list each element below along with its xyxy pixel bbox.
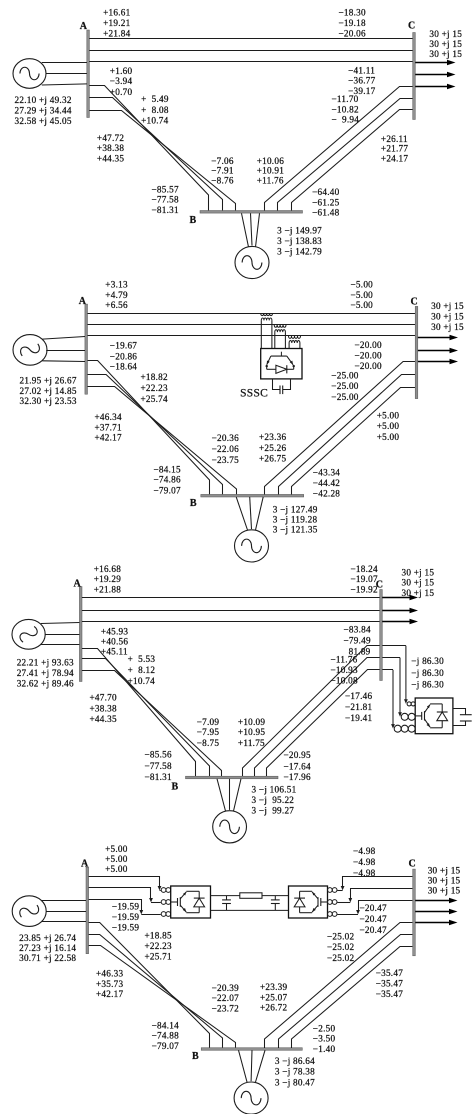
svg-text:−j 86.30: −j 86.30 (411, 656, 444, 666)
svg-text:−17.64: −17.64 (284, 761, 312, 771)
svg-text:+5.00: +5.00 (377, 432, 400, 442)
svg-text:−79.07: −79.07 (152, 1041, 180, 1051)
svg-text:−22.06: −22.06 (212, 444, 240, 454)
svg-text:+45.11: +45.11 (101, 646, 128, 656)
svg-text:−20.39: −20.39 (212, 983, 240, 993)
svg-text:+35.73: +35.73 (96, 979, 124, 989)
svg-text:−41.11: −41.11 (348, 66, 375, 76)
svg-text:−83.84: −83.84 (344, 625, 372, 635)
svg-text:A: A (74, 579, 82, 590)
svg-text:+ 5.49: + 5.49 (141, 94, 169, 104)
svg-text:3 −j 142.79: 3 −j 142.79 (277, 247, 322, 257)
svg-text:30 +j 15: 30 +j 15 (429, 49, 462, 59)
svg-text:C: C (376, 580, 383, 591)
svg-text:+ 8.08: + 8.08 (141, 105, 169, 115)
svg-text:+10.95: +10.95 (238, 727, 266, 737)
svg-text:−20.47: −20.47 (360, 903, 388, 913)
svg-text:−43.34: −43.34 (313, 467, 341, 477)
svg-text:−79.49: −79.49 (344, 636, 372, 646)
svg-text:−81.31: −81.31 (145, 772, 173, 782)
svg-text:−4.98: −4.98 (353, 868, 376, 878)
svg-text:−1.40: −1.40 (313, 1044, 336, 1054)
svg-text:−44.42: −44.42 (313, 478, 341, 488)
svg-text:+21.84: +21.84 (103, 28, 131, 38)
svg-text:SSSC: SSSC (240, 387, 268, 399)
svg-text:−25.00: −25.00 (331, 381, 359, 391)
svg-text:+42.17: +42.17 (95, 432, 123, 442)
svg-text:A: A (79, 296, 87, 307)
svg-text:23.85 +j 26.74: 23.85 +j 26.74 (19, 933, 76, 943)
svg-text:30 +j 15: 30 +j 15 (429, 39, 462, 49)
svg-text:−11.76: −11.76 (331, 655, 358, 665)
svg-text:−84.14: −84.14 (152, 1020, 180, 1030)
svg-text:−10.08: −10.08 (331, 675, 359, 685)
svg-text:+23.39: +23.39 (260, 982, 288, 992)
svg-text:−5.00: −5.00 (351, 300, 374, 310)
svg-text:+0.70: +0.70 (110, 87, 133, 97)
svg-text:−j 86.30: −j 86.30 (411, 679, 444, 689)
svg-text:27.29 +j 34.44: 27.29 +j 34.44 (15, 105, 72, 115)
svg-text:A: A (80, 21, 88, 32)
svg-text:−25.02: −25.02 (327, 932, 355, 942)
svg-text:+37.71: +37.71 (95, 422, 123, 432)
svg-text:−23.72: −23.72 (212, 1003, 240, 1013)
svg-text:−25.00: −25.00 (331, 392, 359, 402)
svg-text:30 +j 15: 30 +j 15 (428, 886, 461, 896)
svg-text:−8.75: −8.75 (197, 738, 220, 748)
svg-text:30 +j 15: 30 +j 15 (431, 312, 464, 322)
svg-text:−35.47: −35.47 (376, 989, 404, 999)
svg-text:−36.77: −36.77 (348, 76, 376, 86)
svg-text:−21.81: −21.81 (345, 702, 373, 712)
svg-text:+5.00: +5.00 (377, 410, 400, 420)
svg-text:+16.68: +16.68 (94, 564, 122, 574)
svg-text:3 −j 106.51: 3 −j 106.51 (252, 785, 297, 795)
svg-text:C: C (411, 296, 418, 307)
svg-text:−3.94: −3.94 (110, 76, 133, 86)
svg-text:−20.47: −20.47 (360, 914, 388, 924)
svg-text:3 −j 127.49: 3 −j 127.49 (273, 504, 318, 514)
svg-text:−84.15: −84.15 (154, 465, 182, 475)
svg-text:+19.29: +19.29 (94, 574, 122, 584)
svg-text:30.71 +j 22.58: 30.71 +j 22.58 (19, 953, 76, 963)
svg-text:+22.23: +22.23 (141, 383, 169, 393)
svg-text:30 +j 15: 30 +j 15 (428, 866, 461, 876)
svg-text:+22.23: +22.23 (145, 941, 173, 951)
svg-text:+24.17: +24.17 (381, 153, 409, 163)
svg-text:+ 8.12: + 8.12 (128, 665, 156, 675)
svg-text:+18.82: +18.82 (141, 372, 169, 382)
svg-text:−85.57: −85.57 (152, 184, 180, 194)
svg-text:−7.95: −7.95 (197, 727, 220, 737)
svg-text:−25.02: −25.02 (327, 953, 355, 963)
svg-text:+6.56: +6.56 (105, 300, 128, 310)
svg-text:3 −j 149.97: 3 −j 149.97 (277, 226, 322, 236)
svg-text:−19.67: −19.67 (110, 341, 138, 351)
svg-text:+44.35: +44.35 (97, 153, 125, 163)
svg-text:+4.79: +4.79 (105, 290, 128, 300)
svg-text:−74.88: −74.88 (152, 1031, 180, 1041)
svg-text:−7.09: −7.09 (197, 717, 220, 727)
svg-text:+10.74: +10.74 (141, 116, 169, 126)
svg-text:−35.47: −35.47 (376, 979, 404, 989)
svg-text:+26.75: +26.75 (259, 454, 287, 464)
svg-text:−20.06: −20.06 (339, 28, 367, 38)
svg-text:− 9.94: − 9.94 (332, 115, 360, 125)
svg-text:−74.86: −74.86 (154, 475, 182, 485)
svg-text:+23.36: +23.36 (259, 432, 287, 442)
svg-text:30 +j 15: 30 +j 15 (428, 876, 461, 886)
svg-text:−20.86: −20.86 (110, 352, 138, 362)
svg-text:+21.88: +21.88 (94, 585, 122, 595)
svg-text:+10.09: +10.09 (238, 717, 266, 727)
svg-text:+5.00: +5.00 (105, 854, 128, 864)
svg-text:−79.07: −79.07 (154, 485, 182, 495)
svg-text:C: C (408, 20, 415, 31)
svg-text:+11.76: +11.76 (257, 176, 284, 186)
svg-text:+26.72: +26.72 (260, 1003, 288, 1013)
svg-text:−22.07: −22.07 (212, 993, 240, 1003)
svg-text:−77.58: −77.58 (145, 761, 173, 771)
svg-text:+38.38: +38.38 (90, 704, 118, 714)
svg-text:27.02 +j 14.85: 27.02 +j 14.85 (20, 386, 77, 396)
svg-text:+44.35: +44.35 (90, 714, 118, 724)
svg-text:30 +j 15: 30 +j 15 (402, 568, 435, 578)
svg-text:A: A (81, 859, 89, 870)
svg-text:+25.07: +25.07 (260, 992, 288, 1002)
svg-text:−77.58: −77.58 (152, 195, 180, 205)
svg-text:−20.36: −20.36 (212, 433, 240, 443)
svg-text:−20.00: −20.00 (355, 351, 383, 361)
svg-text:−17.46: −17.46 (345, 691, 373, 701)
svg-text:+10.06: +10.06 (257, 156, 285, 166)
svg-text:+ 5.53: + 5.53 (128, 654, 156, 664)
svg-text:32.58 +j 45.05: 32.58 +j 45.05 (15, 116, 72, 126)
svg-text:+1.60: +1.60 (110, 66, 133, 76)
svg-text:3 −j 138.83: 3 −j 138.83 (277, 236, 322, 246)
svg-text:−64.40: −64.40 (312, 187, 340, 197)
svg-text:+5.00: +5.00 (105, 864, 128, 874)
svg-text:+25.74: +25.74 (141, 394, 169, 404)
svg-text:3 −j 78.38: 3 −j 78.38 (275, 1067, 315, 1077)
svg-text:+16.61: +16.61 (103, 8, 131, 18)
svg-text:−2.50: −2.50 (313, 1023, 336, 1033)
svg-text:−20.95: −20.95 (284, 750, 312, 760)
svg-text:−8.76: −8.76 (211, 176, 234, 186)
svg-text:22.10 +j 49.32: 22.10 +j 49.32 (15, 95, 72, 105)
svg-text:−11.70: −11.70 (332, 94, 359, 104)
svg-text:B: B (172, 781, 179, 792)
svg-text:B: B (189, 215, 196, 226)
svg-text:+26.11: +26.11 (381, 134, 408, 144)
svg-text:+10.74: +10.74 (128, 676, 156, 686)
svg-text:−19.92: −19.92 (351, 585, 379, 595)
svg-text:32.62 +j 89.46: 32.62 +j 89.46 (17, 678, 74, 688)
svg-text:−19.59: −19.59 (112, 902, 140, 912)
svg-text:+19.21: +19.21 (103, 18, 131, 28)
svg-text:−42.28: −42.28 (313, 488, 341, 498)
svg-text:+46.34: +46.34 (95, 412, 123, 422)
svg-text:32.30 +j 23.53: 32.30 +j 23.53 (20, 396, 77, 406)
svg-text:−20.47: −20.47 (360, 925, 388, 935)
svg-text:−19.41: −19.41 (345, 713, 373, 723)
svg-text:−5.00: −5.00 (351, 280, 374, 290)
svg-text:+46.33: +46.33 (96, 969, 124, 979)
svg-text:+21.77: +21.77 (381, 144, 409, 154)
svg-text:−4.98: −4.98 (353, 846, 376, 856)
svg-text:27.23 +j 16.14: 27.23 +j 16.14 (19, 943, 76, 953)
svg-text:+25.71: +25.71 (145, 951, 173, 961)
svg-text:30 +j 15: 30 +j 15 (431, 322, 464, 332)
svg-text:3 −j 80.47: 3 −j 80.47 (275, 1078, 315, 1088)
svg-text:−61.25: −61.25 (312, 198, 340, 208)
svg-text:C: C (409, 859, 416, 870)
svg-text:−19.59: −19.59 (112, 912, 140, 922)
svg-text:−23.75: −23.75 (212, 455, 240, 465)
svg-text:+47.72: +47.72 (97, 133, 125, 143)
svg-text:+18.85: +18.85 (145, 931, 173, 941)
svg-text:3 −j 99.27: 3 −j 99.27 (252, 805, 295, 815)
svg-text:−18.30: −18.30 (339, 8, 367, 18)
svg-text:30 +j 15: 30 +j 15 (431, 301, 464, 311)
svg-text:−25.00: −25.00 (331, 371, 359, 381)
svg-text:−19.59: −19.59 (112, 922, 140, 932)
svg-text:+5.00: +5.00 (105, 844, 128, 854)
svg-text:+47.70: +47.70 (90, 693, 118, 703)
svg-text:30 +j 15: 30 +j 15 (429, 29, 462, 39)
svg-text:−18.64: −18.64 (110, 362, 138, 372)
svg-text:+11.75: +11.75 (238, 738, 265, 748)
svg-text:30 +j 15: 30 +j 15 (402, 588, 435, 598)
svg-text:−20.00: −20.00 (355, 340, 383, 350)
svg-text:30 +j 15: 30 +j 15 (402, 578, 435, 588)
svg-text:3 −j 119.28: 3 −j 119.28 (273, 514, 318, 524)
svg-text:3 −j 121.35: 3 −j 121.35 (273, 524, 318, 534)
svg-text:22.21 +j 93.63: 22.21 +j 93.63 (17, 658, 74, 668)
svg-text:−19.07: −19.07 (351, 574, 379, 584)
svg-text:−3.50: −3.50 (313, 1034, 336, 1044)
svg-text:−18.24: −18.24 (351, 564, 379, 574)
svg-text:−35.47: −35.47 (376, 968, 404, 978)
svg-text:+25.26: +25.26 (259, 443, 287, 453)
svg-text:−5.00: −5.00 (351, 290, 374, 300)
svg-text:+3.13: +3.13 (105, 280, 128, 290)
svg-text:−4.98: −4.98 (353, 857, 376, 867)
svg-text:−25.02: −25.02 (327, 942, 355, 952)
svg-text:3 −j 86.64: 3 −j 86.64 (275, 1056, 315, 1066)
svg-text:B: B (192, 1051, 199, 1062)
svg-text:3 −j 95.22: 3 −j 95.22 (252, 795, 295, 805)
svg-text:−85.56: −85.56 (145, 749, 173, 759)
svg-text:B: B (190, 498, 197, 509)
svg-text:−81.31: −81.31 (152, 205, 180, 215)
svg-text:−7.06: −7.06 (211, 156, 234, 166)
svg-text:+40.56: +40.56 (101, 636, 129, 646)
svg-text:−10.93: −10.93 (331, 665, 359, 675)
svg-text:+45.93: +45.93 (101, 627, 129, 637)
svg-text:21.95 +j 26.67: 21.95 +j 26.67 (20, 375, 77, 385)
svg-text:−7.91: −7.91 (211, 166, 234, 176)
svg-text:+42.17: +42.17 (96, 989, 124, 999)
svg-text:+5.00: +5.00 (377, 421, 400, 431)
svg-text:+38.38: +38.38 (97, 143, 125, 153)
svg-text:27.41 +j 78.94: 27.41 +j 78.94 (17, 668, 74, 678)
svg-text:−17.96: −17.96 (284, 772, 312, 782)
svg-text:−61.48: −61.48 (312, 208, 340, 218)
svg-text:−10.82: −10.82 (332, 105, 360, 115)
svg-text:−19.18: −19.18 (339, 18, 367, 28)
svg-text:−j 86.30: −j 86.30 (411, 668, 444, 678)
svg-text:+10.91: +10.91 (257, 166, 285, 176)
